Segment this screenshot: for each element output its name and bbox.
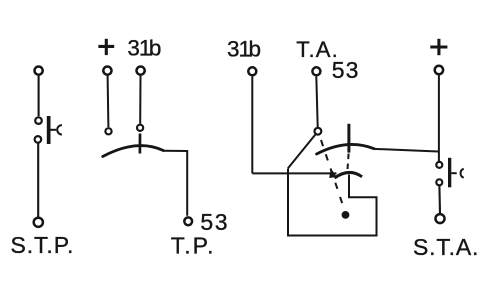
switch T.P. arc xyxy=(103,146,164,157)
pushbutton bridge bar xyxy=(47,116,51,144)
wire xyxy=(251,76,253,173)
terminal + xyxy=(435,66,443,74)
cam follower dot xyxy=(342,211,350,219)
pushbutton actuator xyxy=(51,125,62,134)
switch S.T.A. terminal bottom xyxy=(436,214,445,223)
terminal + xyxy=(103,67,111,75)
contact xyxy=(35,117,42,124)
switch S.T.P. terminal bottom xyxy=(34,218,43,227)
wire xyxy=(107,76,110,127)
svg-text:T.P.: T.P. xyxy=(171,232,216,258)
svg-text:S.T.A.: S.T.A. xyxy=(413,234,479,260)
contact xyxy=(436,179,442,185)
svg-text:31b: 31b xyxy=(127,36,161,61)
plus symbol (S.T.A. feed) xyxy=(430,39,447,55)
wire xyxy=(163,151,187,216)
terminal T.A. xyxy=(312,67,320,75)
wire xyxy=(438,76,440,162)
terminal 53 xyxy=(184,217,192,225)
wiper contact tick xyxy=(139,134,142,154)
svg-text:31b: 31b xyxy=(227,37,261,62)
wire xyxy=(252,172,336,174)
wire xyxy=(374,149,438,152)
terminal 31b xyxy=(248,67,256,75)
contact xyxy=(137,125,143,131)
wire xyxy=(316,76,317,127)
pushbutton bridge bar xyxy=(448,158,451,188)
switch S.T.P. terminal top xyxy=(35,67,43,75)
contact xyxy=(105,128,111,134)
contact xyxy=(436,162,442,168)
plunger bar xyxy=(347,124,350,153)
cam housing outline xyxy=(288,169,377,236)
plunger dashed xyxy=(347,154,348,171)
motion arc with arrow xyxy=(329,168,362,178)
wire xyxy=(38,76,40,116)
svg-text:53: 53 xyxy=(200,209,229,235)
contact xyxy=(35,136,42,143)
wire xyxy=(37,143,39,217)
linkage dashed xyxy=(321,140,345,211)
pushbutton actuator xyxy=(451,169,463,178)
wire xyxy=(438,186,441,214)
wire xyxy=(139,76,141,124)
svg-text:53: 53 xyxy=(332,57,360,83)
terminal 31b xyxy=(137,67,145,75)
svg-text:S.T.P.: S.T.P. xyxy=(11,232,75,258)
plus symbol (T.P. feed) xyxy=(98,39,114,55)
lever link xyxy=(288,135,315,169)
switch T.A. arc xyxy=(317,144,374,154)
pivot contact xyxy=(315,128,322,135)
